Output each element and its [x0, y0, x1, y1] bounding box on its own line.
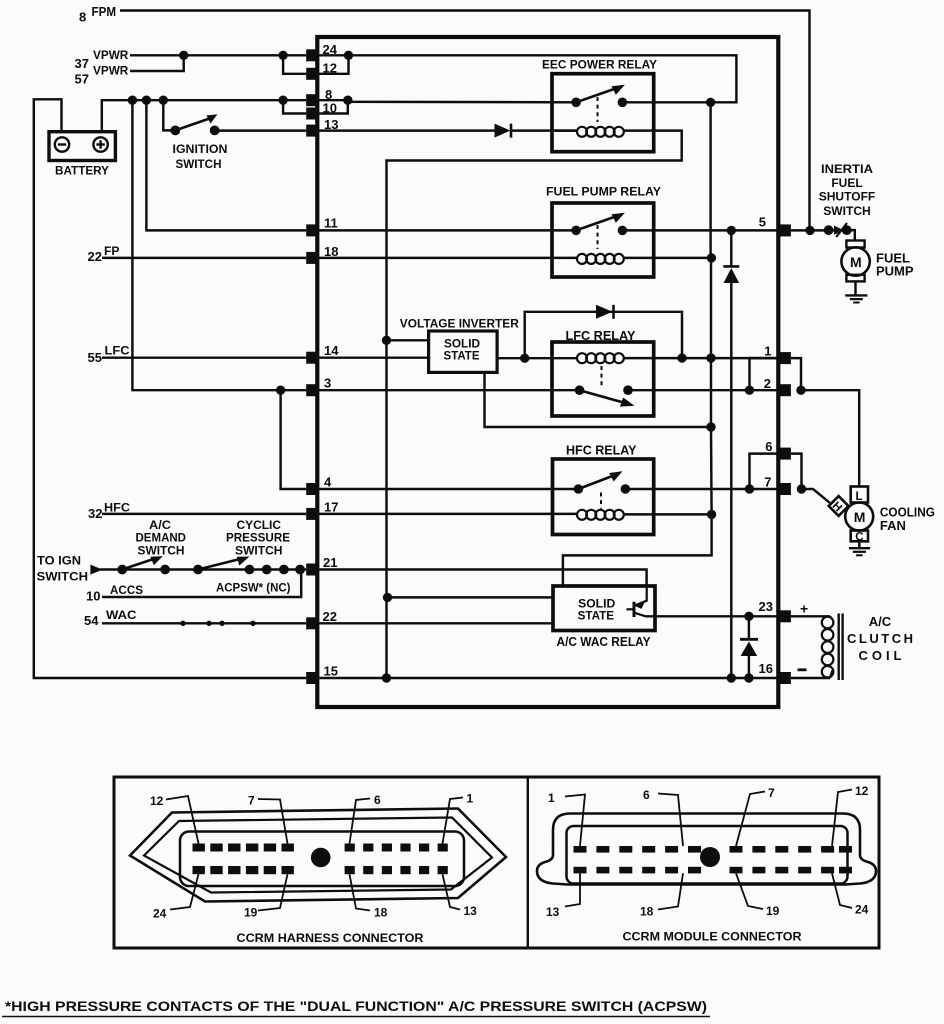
svg-text:22: 22 [88, 249, 102, 264]
pin 6 to pin 7 outer bracket [791, 454, 802, 489]
diode CR2 fuel pump clamp [723, 265, 739, 268]
svg-text:SWITCH: SWITCH [235, 545, 283, 557]
wire pin 3 to K3 contact [319, 389, 580, 391]
harness leader 24 [170, 874, 199, 909]
node inverter top tap [382, 336, 391, 345]
harness pin dashes row 2 [193, 866, 448, 874]
voltage inverter U1 box [429, 331, 498, 372]
relay K4 HFC relay box [553, 459, 654, 535]
harness pin dashes row 1 [193, 844, 448, 852]
module leader 6 [658, 794, 683, 847]
wire K4 contact to pin 7 [625, 488, 778, 490]
wire WAC relay left stub [388, 596, 554, 598]
pin 22 [306, 617, 318, 629]
cooling fan L terminal [851, 487, 868, 503]
svg-text:ACPSW* (NC): ACPSW* (NC) [216, 583, 291, 595]
pin 18 [306, 252, 318, 264]
relay K3 contacts [575, 385, 585, 395]
pin 1 [779, 352, 791, 364]
module center hole [700, 847, 720, 867]
svg-text:FUEL: FUEL [831, 176, 862, 190]
svg-text:24: 24 [153, 907, 167, 921]
svg-text:SWITCH: SWITCH [823, 204, 871, 218]
wire EEC coil return loop [387, 131, 682, 678]
svg-text:14: 14 [324, 343, 339, 358]
node ground rail x731 [727, 673, 736, 682]
node EEC output [706, 98, 715, 107]
svg-text:A/C WAC RELAY: A/C WAC RELAY [557, 635, 652, 649]
wire pin 21 to WAC relay [319, 570, 647, 587]
svg-text:1: 1 [467, 792, 474, 806]
node bridge 24 right [344, 51, 353, 60]
battery B+ rail [102, 100, 306, 132]
svg-text:6: 6 [765, 439, 772, 454]
wire K3 contact to pin 2 [628, 389, 778, 391]
svg-text:54: 54 [84, 613, 99, 628]
node bracket 6-7 outer [797, 484, 806, 493]
ground fuel pump [854, 281, 856, 295]
svg-text:CYCLIC: CYCLIC [237, 520, 282, 532]
svg-text:19: 19 [244, 906, 258, 920]
diode CR4 clutch clamp [748, 616, 750, 639]
svg-text:3: 3 [324, 376, 331, 391]
footnote underline [2, 1016, 710, 1018]
wire pin 22 to WAC relay [319, 622, 554, 624]
wire HFC return to WAC box [563, 514, 712, 586]
node B+ tap 3 [159, 96, 168, 105]
wire FP circuit to pin 18 [102, 257, 306, 259]
wire K2 coil return [623, 257, 711, 259]
svg-text:18: 18 [640, 905, 654, 919]
harness leader 1 [443, 798, 464, 844]
svg-text:18: 18 [324, 244, 338, 259]
svg-text:CCRM HARNESS CONNECTOR: CCRM HARNESS CONNECTOR [237, 931, 424, 945]
ignition switch S1 [170, 125, 180, 135]
pin 6 to pin 7 inner bracket [750, 454, 779, 489]
wire VPWR rail to EEC relay [319, 55, 737, 102]
node bracket 1-2 inner [745, 386, 754, 395]
module pin dashes row 2 [574, 867, 853, 874]
svg-text:7: 7 [248, 794, 255, 808]
svg-text:10: 10 [86, 589, 100, 604]
svg-text:SOLID: SOLID [444, 338, 480, 350]
wire pin 5 to inertia switch [791, 229, 852, 231]
wire pin 15 to pin 16 ground rail [319, 677, 779, 679]
relay K3 LFC relay box [552, 342, 654, 416]
node bridge 8 left [278, 96, 287, 105]
svg-text:ACCS: ACCS [110, 583, 143, 597]
module leader 19 [736, 873, 763, 909]
svg-text:WAC: WAC [106, 608, 137, 622]
relay K3 coil [577, 353, 587, 363]
svg-text:LFC RELAY: LFC RELAY [566, 329, 637, 343]
wire pin 8 to EEC relay contact [319, 99, 348, 101]
svg-text:INERTIA: INERTIA [821, 162, 873, 176]
svg-text:SOLID: SOLID [578, 598, 615, 610]
svg-text:12: 12 [150, 794, 164, 808]
transistor Q1 [633, 602, 636, 617]
node bridge 8 right [343, 96, 352, 105]
A/C demand switch S2 [117, 565, 127, 575]
harness center hole [311, 848, 331, 868]
clutch coil core [838, 614, 840, 681]
svg-text:57: 57 [75, 72, 89, 87]
node ground rail x386 [382, 673, 391, 682]
pin 24 [306, 49, 318, 61]
pin 6 [779, 448, 791, 460]
svg-text:18: 18 [374, 906, 388, 920]
wire pin 16 to clutch coil [791, 677, 830, 679]
pin 15 [306, 672, 318, 684]
node K2 coil to vertical [707, 253, 716, 262]
pin 8 [306, 94, 318, 106]
pin 11 [306, 224, 318, 236]
svg-text:EEC POWER RELAY: EEC POWER RELAY [542, 58, 657, 72]
splice marks on WAC wire [180, 621, 185, 626]
CCRM module connector shell [537, 814, 876, 885]
pin 4 [306, 483, 318, 495]
cooling fan C terminal [851, 531, 868, 542]
svg-text:22: 22 [323, 609, 337, 624]
svg-text:15: 15 [324, 664, 338, 679]
svg-text:10: 10 [323, 100, 337, 115]
CCRM harness connector shell inner [144, 818, 492, 893]
pin 8 bridge right riser to pin 10 [319, 100, 348, 113]
inertia fuel shutoff switch S4 [824, 225, 834, 235]
node K4 coil to vertical [707, 510, 716, 519]
svg-text:M: M [850, 254, 862, 270]
wire U2 output to pin 23 [646, 615, 778, 617]
svg-text:SWITCH: SWITCH [176, 157, 222, 171]
feed arrow to switch chain [90, 565, 102, 575]
wire U1 bottom link [485, 372, 712, 427]
wire LFC circuit to pin 14 and inverter [102, 356, 429, 358]
PLACEHOLDER-RIGHT [114, 777, 879, 948]
pin 3 [306, 384, 318, 396]
wire WAC to pin 22 [102, 622, 306, 624]
wire pin 2 to cooling fan L [801, 390, 859, 486]
svg-text:7: 7 [768, 786, 775, 800]
module pin dashes row 1 [574, 846, 853, 853]
wire ignition to pin 13 [215, 129, 307, 131]
pin 5 [779, 224, 791, 236]
svg-text:37: 37 [75, 56, 89, 71]
A/C clutch coil L1 [822, 617, 834, 629]
node bracket 6-7 inner [745, 484, 754, 493]
wire ignition feed riser [163, 100, 175, 130]
svg-text:12: 12 [855, 784, 869, 798]
relay K2 dashed link [597, 225, 599, 249]
battery ground lead [34, 99, 306, 678]
svg-text:A/C: A/C [149, 520, 171, 532]
relay K1 EEC power relay box [552, 74, 654, 152]
module leader 12 [832, 790, 852, 847]
svg-text:PRESSURE: PRESSURE [226, 532, 290, 544]
pin 14 [306, 352, 318, 364]
module leader 13 [565, 873, 580, 906]
wire HFC circuit to pin 17 [102, 513, 306, 515]
svg-text:STATE: STATE [444, 351, 480, 363]
relay K1 dashed link [597, 97, 599, 122]
relay K3 dashed link [601, 366, 603, 386]
node LFC return vertical [706, 353, 715, 362]
CCRM harness connector shell outer [130, 809, 506, 902]
pin 12 [306, 68, 318, 80]
svg-text:SWITCH: SWITCH [37, 570, 89, 584]
svg-text:FPM: FPM [92, 5, 117, 19]
wire pin 11 to K2 contact [319, 229, 577, 231]
svg-text:VPWR: VPWR [93, 48, 129, 62]
svg-text:PUMP: PUMP [876, 264, 914, 279]
cyclic pressure switch S3 [193, 565, 203, 575]
svg-text:VOLTAGE INVERTER: VOLTAGE INVERTER [400, 319, 520, 331]
svg-text:M: M [854, 509, 866, 525]
diode CR1 [495, 124, 511, 138]
wire K2 contact to pin 5 [622, 229, 778, 231]
wire K4 coil return [623, 513, 712, 515]
relay K2 fuel pump relay box [552, 203, 654, 277]
harness leader 7 [258, 799, 288, 844]
svg-text:SHUTOFF: SHUTOFF [819, 190, 876, 204]
node pin3 branch [276, 386, 285, 395]
wire K3 coil return to pin 1 [623, 357, 778, 359]
ACPSW contacts chain [245, 565, 255, 575]
node bridge 24 left [278, 51, 287, 60]
label minus [798, 668, 807, 671]
svg-text:A/C: A/C [869, 614, 892, 629]
node VPWR junction [179, 51, 188, 60]
relay K4 coil [319, 513, 579, 515]
svg-text:DEMAND: DEMAND [136, 532, 187, 544]
svg-text:VPWR: VPWR [93, 64, 129, 78]
svg-text:4: 4 [324, 475, 332, 490]
svg-text:8: 8 [79, 10, 86, 25]
wire U1 output to LFC coil [497, 357, 578, 359]
CCRM harness connector body [180, 832, 464, 887]
harness leader 13 [443, 874, 461, 909]
node LFC loop bottom [677, 353, 686, 362]
harness leader 18 [350, 874, 371, 910]
svg-text:16: 16 [759, 661, 773, 676]
wire LFC bypass diode loop [525, 312, 682, 358]
svg-text:2: 2 [764, 376, 771, 391]
node WAC left stub tap [383, 593, 392, 602]
svg-text:1: 1 [548, 791, 555, 805]
wire pin 23 to clutch coil [791, 615, 830, 617]
svg-text:SWITCH: SWITCH [138, 545, 185, 557]
node ground rail diode [744, 673, 753, 682]
relay K1 coil [552, 129, 578, 131]
svg-text:7: 7 [764, 475, 771, 490]
svg-text:FP: FP [104, 244, 120, 258]
svg-text:24: 24 [323, 42, 338, 57]
pin 1 to pin 2 inner bracket [750, 358, 779, 390]
connector section outer box [114, 777, 879, 948]
wire K1 contact out [622, 101, 710, 103]
svg-text:55: 55 [88, 350, 102, 365]
node FPM junction [805, 226, 814, 235]
vertical net EEC out down [709, 102, 711, 258]
svg-text:CCRM MODULE CONNECTOR: CCRM MODULE CONNECTOR [623, 930, 802, 944]
svg-text:13: 13 [464, 904, 478, 918]
pin 2 [779, 384, 791, 396]
wire pin3 to pin4 riser [281, 390, 307, 489]
pin 17 [306, 508, 318, 520]
harness leader 19 [258, 874, 288, 910]
svg-text:13: 13 [546, 905, 560, 919]
module leader 7 [736, 792, 765, 847]
battery BAT1 [49, 132, 115, 161]
svg-text:11: 11 [324, 216, 338, 231]
pin 24 bridge right riser to pin 12 [319, 55, 349, 74]
svg-text:STATE: STATE [578, 610, 615, 622]
wire pin 4 to K4 contact [319, 488, 579, 490]
CCRM module main box [317, 37, 778, 707]
svg-text:*HIGH PRESSURE CONTACTS OF THE: *HIGH PRESSURE CONTACTS OF THE "DUAL FUN… [5, 998, 707, 1014]
svg-text:21: 21 [323, 555, 337, 570]
node bracket 1-2 outer [796, 386, 805, 395]
svg-text:L: L [856, 491, 863, 503]
svg-text:12: 12 [323, 60, 337, 75]
svg-text:FAN: FAN [880, 518, 906, 533]
wire VPWR circuit 57 [130, 55, 184, 71]
svg-text:TO IGN: TO IGN [37, 554, 81, 568]
relay K4 contacts [574, 484, 584, 494]
wire inertia switch to fuel pump [847, 230, 855, 240]
module leader 24 [832, 873, 852, 908]
svg-text:COIL: COIL [859, 648, 902, 663]
node B+ tap 2 [142, 96, 151, 105]
svg-text:IGNITION: IGNITION [173, 142, 228, 156]
svg-text:HFC: HFC [104, 500, 130, 514]
node B+ tap 1 [128, 96, 137, 105]
wire diode to EEC coil [511, 129, 577, 131]
cooling fan H terminal [828, 496, 849, 517]
svg-text:19: 19 [766, 904, 780, 918]
relay K4 dashed link [600, 493, 602, 509]
svg-text:FUEL PUMP RELAY: FUEL PUMP RELAY [546, 185, 661, 199]
module leader 18 [658, 873, 683, 909]
svg-text:5: 5 [759, 215, 766, 230]
fuel pump motor M1 [846, 241, 864, 248]
svg-text:23: 23 [759, 599, 773, 614]
PLACEHOLDER-MID [306, 42, 791, 684]
pin 1 to pin 2 outer bracket [791, 358, 801, 390]
wire VPWR circuit 37 [130, 54, 306, 56]
wire inverter top stub [387, 339, 429, 341]
svg-text:6: 6 [374, 793, 381, 807]
wire pin 7 to cooling fan H [802, 489, 830, 503]
harness leader 6 [350, 799, 371, 844]
connector section divider [527, 777, 529, 948]
pin 13 [306, 125, 318, 137]
pin 24 bridge left riser [283, 55, 306, 74]
A/C WAC relay U2 box [553, 586, 655, 631]
svg-text:32: 32 [88, 506, 102, 521]
pin 23 [779, 610, 791, 622]
wire ACCS to chain [102, 570, 301, 598]
pin 21 [306, 564, 318, 576]
cooling fan motor M2 [845, 503, 873, 531]
svg-text:HFC RELAY: HFC RELAY [566, 444, 637, 458]
pin 10 [306, 108, 318, 120]
pin 7 [779, 483, 791, 495]
wire FPM circuit 8 [120, 11, 810, 231]
svg-text:24: 24 [855, 903, 869, 917]
PLACEHOLDER-PINS [745, 162, 935, 680]
harness leader 12 [166, 796, 199, 844]
wire switch chain [100, 568, 306, 570]
vertical net pin5 clamp [730, 230, 732, 266]
svg-text:CLUTCH: CLUTCH [847, 631, 913, 646]
svg-text:BATTERY: BATTERY [55, 164, 109, 178]
svg-text:LFC: LFC [105, 344, 130, 358]
module leader 1 [565, 795, 585, 847]
svg-text:1: 1 [764, 344, 771, 359]
relay K1 contacts [571, 98, 581, 108]
pin 16 [779, 672, 791, 684]
relay K2 contacts [571, 226, 581, 236]
node U1 bottom to vertical [706, 422, 715, 431]
wire pin 3 feed from B+ [132, 100, 306, 390]
wire pin 11 feed [146, 100, 306, 230]
wire pin 13 to diode [319, 129, 495, 131]
svg-text:13: 13 [324, 117, 338, 132]
CCRM module connector body [567, 826, 848, 884]
ground cooling fan [858, 541, 860, 548]
node pin 23 diode tap [744, 612, 753, 621]
svg-text:17: 17 [324, 500, 338, 515]
relay K2 coil [319, 257, 579, 259]
svg-text:+: + [800, 601, 808, 617]
node LFC diode left tap [520, 354, 529, 363]
svg-text:6: 6 [643, 788, 650, 802]
node pin5 diode tap [727, 226, 736, 235]
pin 8 bridge left riser to pin 10 [283, 100, 306, 113]
diode CR3 LFC [596, 305, 613, 319]
